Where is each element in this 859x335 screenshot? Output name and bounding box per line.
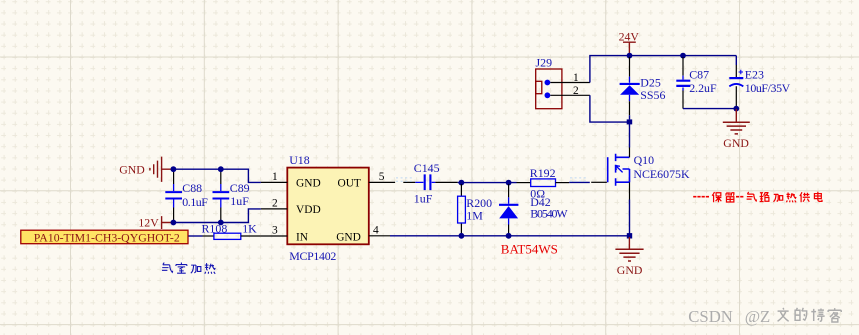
- svg-text:1uF: 1uF: [414, 191, 433, 205]
- wire J29 pin2 to Q10 drain: [590, 95, 630, 122]
- junction square at Q10 drain / D25: [627, 119, 633, 124]
- svg-text:C145: C145: [414, 161, 440, 175]
- svg-text:BAT54WS: BAT54WS: [501, 241, 558, 256]
- op-amp U18 body: [287, 153, 369, 263]
- port PA10-TIM1-CH3-QYGHOT-2: [21, 230, 188, 244]
- wire C145 to R192: [435, 181, 457, 183]
- svg-text:U18: U18: [289, 153, 310, 167]
- junction at 24V: [627, 53, 633, 59]
- junction at R200 bottom: [459, 233, 465, 239]
- svg-text:MCP1402: MCP1402: [289, 249, 336, 263]
- svg-text:GND: GND: [617, 263, 643, 277]
- svg-text:Q10: Q10: [634, 153, 655, 167]
- wire Q10 drain up: [629, 122, 631, 147]
- svg-text:1K: 1K: [242, 222, 257, 236]
- junction at C88 bottom: [171, 220, 177, 226]
- svg-text:5: 5: [379, 171, 385, 183]
- power port 24V: [619, 29, 640, 53]
- diode D25 SS56: [620, 57, 666, 119]
- svg-text:E23: E23: [745, 67, 764, 81]
- power port 12V: [138, 216, 173, 230]
- svg-text:R192: R192: [530, 166, 556, 180]
- wire Q10 source down: [629, 200, 631, 236]
- svg-text:GND: GND: [296, 177, 321, 189]
- resistor R108: [202, 222, 261, 240]
- svg-text:J29: J29: [536, 56, 553, 70]
- svg-text:NCE6075K: NCE6075K: [633, 167, 690, 181]
- pin 2 of U18: [261, 198, 287, 210]
- bottom wire U18 pin4 to Q10 source: [390, 235, 630, 237]
- svg-text:1M: 1M: [466, 209, 483, 223]
- svg-text:3: 3: [272, 225, 278, 237]
- svg-text:GND: GND: [119, 163, 145, 177]
- wire R192 to Q10 gate: [569, 181, 590, 183]
- svg-text:0.1uF: 0.1uF: [182, 195, 208, 209]
- svg-text:2.2uF: 2.2uF: [689, 81, 717, 95]
- svg-text:OUT: OUT: [337, 177, 360, 189]
- connector J29: [536, 56, 590, 109]
- transistor Q10 NCE6075K: [608, 148, 690, 200]
- svg-text:1: 1: [573, 72, 579, 84]
- svg-text:1: 1: [272, 171, 278, 183]
- svg-text:4: 4: [373, 224, 379, 236]
- capacitor C89: [213, 170, 250, 222]
- svg-text:B0540W: B0540W: [530, 207, 568, 221]
- capacitor E23 (polarized): [729, 56, 790, 109]
- svg-text:24V: 24V: [619, 29, 640, 43]
- svg-text:1uF: 1uF: [230, 194, 249, 208]
- wire J29 pin1 to 24V rail: [590, 56, 736, 83]
- svg-text:CSDN: CSDN: [688, 307, 733, 326]
- svg-text:0Ω: 0Ω: [530, 186, 545, 200]
- svg-text:R108: R108: [202, 222, 228, 236]
- net highlight dashes (faint): [396, 178, 588, 181]
- svg-text:2: 2: [272, 198, 278, 210]
- junction at D42 top: [506, 180, 512, 186]
- junction at R200 top: [459, 180, 465, 186]
- junction at C87 top: [680, 53, 686, 59]
- capacitor C87: [676, 57, 717, 109]
- svg-text:@Z: @Z: [745, 307, 771, 326]
- junction at C89 bottom: [218, 220, 224, 226]
- svg-text:VDD: VDD: [296, 204, 321, 216]
- svg-text:GND: GND: [336, 231, 361, 243]
- pin 3 of U18: [261, 225, 287, 237]
- diode D42 B0540W: [499, 184, 568, 236]
- pin 1 of U18: [261, 171, 287, 183]
- junction at C88 top: [171, 166, 177, 172]
- svg-text:PA10-TIM1-CH3-QYGHOT-2: PA10-TIM1-CH3-QYGHOT-2: [34, 230, 180, 244]
- svg-text:2: 2: [573, 85, 579, 97]
- power port GND (top-left): [119, 157, 173, 182]
- wire port to R108: [188, 235, 202, 237]
- junction square at Q10 source / GND: [627, 233, 632, 238]
- ground GND (below E23): [723, 109, 750, 150]
- wire 12V rail to U18 pin2: [173, 209, 261, 223]
- capacitor C88: [165, 170, 208, 222]
- svg-text:IN: IN: [296, 231, 308, 243]
- resistor R200: [458, 184, 493, 236]
- wire GND rail to U18 pin1: [173, 169, 261, 182]
- svg-text:C87: C87: [689, 67, 709, 81]
- label 气室加热 (blue chinese): [162, 263, 215, 274]
- svg-text:C88: C88: [182, 181, 202, 195]
- capacitor C145: [414, 161, 440, 206]
- ground GND (below Q10): [615, 237, 643, 277]
- pin 5 of U18: [369, 171, 416, 183]
- junction at E23 bottom: [733, 106, 739, 112]
- svg-text:GND: GND: [723, 136, 749, 150]
- svg-text:12V: 12V: [138, 216, 159, 230]
- svg-text:10uF/35V: 10uF/35V: [745, 81, 791, 95]
- wire C87 bottom to E23 bottom: [683, 108, 736, 110]
- watermark CSDN @Z文的博客: [688, 307, 841, 326]
- pin 4 of U18: [369, 224, 390, 236]
- junction at D42 bottom: [506, 233, 512, 239]
- svg-text:SS56: SS56: [640, 88, 665, 102]
- resistor R192: [517, 166, 570, 201]
- junction at C89 top: [218, 166, 224, 172]
